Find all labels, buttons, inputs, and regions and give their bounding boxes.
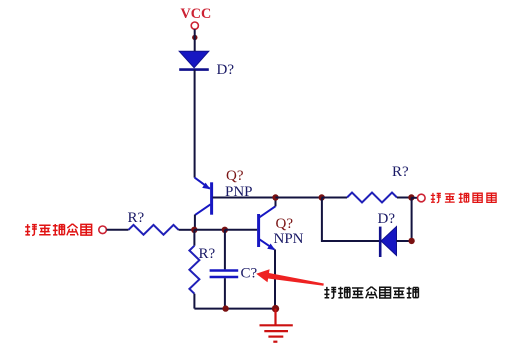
node 驱动输出端 label (431, 193, 496, 203)
wire D2 anode to node F (397, 240, 412, 242)
wire R3 to bottom rail (193, 294, 195, 309)
svg-text:D?: D? (378, 211, 396, 227)
wire node D to R2 (322, 197, 347, 199)
VCC junction dot (192, 35, 197, 40)
transistor Q1 (PNP) (195, 178, 212, 215)
input terminal circle (99, 226, 107, 234)
wire node D down to D2 cathode (322, 198, 379, 242)
wire node C to node D (276, 197, 322, 199)
wire node A down to R3 (193, 230, 195, 246)
svg-text:R?: R? (199, 246, 216, 262)
wire Q2 emitter down to ground node (274, 249, 276, 308)
bottom rail wire (194, 308, 275, 310)
wire node E to output terminal (411, 197, 417, 199)
node D junction dot (319, 194, 325, 200)
ground node junction dot (272, 305, 279, 312)
resistor R1 (129, 225, 179, 235)
wire Q1 collector to node A (194, 215, 196, 230)
capacitor C1 (210, 271, 239, 278)
wire node B down to C1 (224, 230, 226, 270)
svg-text:D?: D? (217, 62, 235, 78)
svg-text:Q?: Q? (226, 168, 244, 184)
node B junction dot (222, 227, 228, 233)
annotation arrow (256, 269, 324, 286)
wire Q2 collector up to node C (275, 198, 277, 207)
svg-text:R?: R? (392, 164, 409, 180)
output terminal circle (418, 194, 426, 202)
wire C1 to bottom rail (224, 278, 226, 308)
svg-text:C?: C? (241, 266, 258, 282)
annotation text 特别注意该电容 (324, 287, 418, 299)
node 驱动输入端 label (25, 224, 91, 236)
wire Q1 base to node C (213, 197, 276, 199)
node F junction dot (408, 238, 414, 244)
wire R2 to node E (397, 197, 411, 199)
transistor Q2 (NPN) (259, 206, 276, 250)
svg-text:NPN: NPN (274, 231, 304, 247)
node A junction dot (191, 227, 197, 233)
wire node B to Q2 base (225, 229, 257, 231)
VCC terminal circle (191, 22, 198, 29)
resistor R3 (189, 246, 199, 294)
wire D1 cathode to Q1 emitter (194, 70, 196, 178)
wire node A to node B (194, 229, 225, 231)
node C junction dot (272, 194, 278, 200)
wire R1 to node A (179, 229, 195, 231)
resistor R2 (347, 193, 397, 203)
wire input terminal to R1 (107, 229, 129, 231)
svg-text:VCC: VCC (181, 6, 212, 22)
wire VCC to D1 anode (194, 29, 196, 51)
svg-text:R?: R? (128, 210, 145, 226)
diode D2 (380, 227, 396, 258)
wire node F up to node E (411, 198, 413, 242)
ground (260, 309, 293, 342)
bottom rail junction dot (C1) (222, 305, 228, 311)
node E junction dot (408, 194, 414, 200)
svg-text:Q?: Q? (276, 216, 294, 232)
diode D1 (179, 51, 209, 69)
